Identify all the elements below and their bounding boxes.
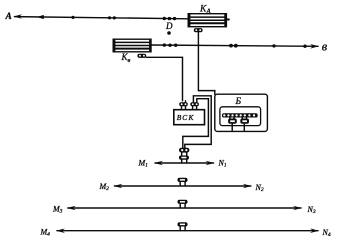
feeder transformer coil bottom [179,153,189,163]
box B outer [215,94,268,131]
terminal strip bar with white holes [222,113,258,117]
wire pair VSK coil2 to feeder transformer (inner) [183,99,209,148]
box B inner terminal unit [220,107,261,126]
B internal coil 2 [240,117,249,124]
dipole M2 feed coil [178,178,188,186]
coil KA block [188,14,229,27]
dipole M3 feed coil [178,200,188,208]
coupling coil under KA [194,28,203,32]
coupling coil beside KB [137,54,146,58]
junction dots right of crossing [229,44,233,48]
dot on A line [71,16,74,19]
dipole M1-N1 [155,162,214,164]
svg-text:ВСК: ВСК [177,113,195,122]
box VSK [174,110,205,125]
svg-text:А: А [5,12,12,22]
triple dots on A line near KA [163,17,166,20]
svg-text:Б: Б [235,97,242,107]
wire from KA coil down through B line [197,32,199,90]
wire pair VSK coil2 to feeder transformer (outer) [185,96,211,148]
coil KB block [113,39,151,52]
svg-text:D: D [165,21,173,31]
dot below D [167,31,171,35]
svg-text:в: в [322,40,328,54]
wire KA elbow into B-box [198,91,214,95]
B internal coil 1 [228,117,237,124]
wire from KB coil to VSK coil1 [146,57,182,101]
arrowhead B right [310,44,319,49]
wire antenna-A line [15,17,189,19]
arrow mark on A line [37,15,45,19]
arrowhead A left [14,14,23,19]
dots on B line [163,43,166,46]
dipole M4 feed coil [178,222,188,230]
dipole M2-N2 [115,185,251,187]
VSK input coil 2 [190,102,199,110]
dipole M3-N3 [68,207,301,209]
wire antenna-B line [151,45,318,46]
feeder transformer coil top (oo) [179,148,189,153]
dot pair on A line [108,16,111,19]
VSK input coil 1 [179,101,188,110]
dipole M4-N4 [57,230,318,232]
B coil lead stubs to box bottom [231,124,233,132]
